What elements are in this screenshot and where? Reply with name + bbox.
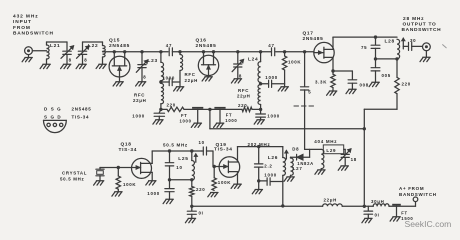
- resistor 100K (Q18 gate): [117, 168, 119, 177]
- node rail-L24: [259, 50, 262, 53]
- capacitor 8 (Q15 tank trimmer): [141, 52, 143, 64]
- ground output connector: [425, 51, 427, 57]
- resistor 220 (Q16 bias): [242, 107, 252, 111]
- node L25 bottom: [190, 178, 193, 181]
- transistor Q15 2N5485: [109, 56, 130, 77]
- svg-text:8: 8: [69, 58, 72, 63]
- svg-text:1000: 1000: [225, 118, 237, 123]
- svg-text:SeekIC.com: SeekIC.com: [405, 219, 452, 229]
- inductor 30uH: [373, 204, 389, 207]
- svg-text:10: 10: [176, 165, 182, 170]
- capacitor 5 (neutralizing): [304, 52, 306, 86]
- svg-text:2N5485: 2N5485: [196, 43, 217, 49]
- wire diode to 404 tank: [309, 149, 311, 157]
- svg-text:22μH: 22μH: [185, 78, 199, 83]
- capacitor 8 (L22 trimmer): [83, 41, 103, 43]
- ground .008: [346, 89, 356, 93]
- ground Q16 source: [202, 77, 212, 81]
- svg-text:Q16: Q16: [196, 38, 207, 44]
- svg-text:30μH: 30μH: [371, 199, 385, 204]
- svg-text:8: 8: [84, 58, 87, 63]
- ground 100K Q19: [208, 193, 218, 197]
- svg-text:220: 220: [167, 103, 176, 108]
- ground FT 1500: [390, 217, 400, 221]
- ground Q19 source: [231, 184, 241, 188]
- svg-text:L23: L23: [148, 58, 158, 64]
- svg-text:47: 47: [166, 43, 172, 48]
- svg-text:47: 47: [268, 43, 274, 48]
- inductor L21: [47, 41, 68, 43]
- arrow L26 slug: [285, 151, 287, 159]
- svg-text:D S G: D S G: [44, 107, 62, 112]
- inductor L26: [282, 147, 284, 158]
- svg-text:1000: 1000: [267, 113, 280, 118]
- ground L22: [96, 64, 106, 68]
- node rail-neutralizing: [303, 50, 306, 53]
- svg-text:008: 008: [360, 82, 369, 87]
- inductor L28: [397, 39, 400, 59]
- svg-text:2N5485: 2N5485: [303, 36, 324, 42]
- wire input to L21 tank: [32, 50, 46, 52]
- svg-text:5: 5: [308, 89, 311, 94]
- svg-text:1000: 1000: [265, 75, 278, 80]
- wire rail Q16 net: [172, 51, 271, 53]
- inductor RFC 22uH (Q15 bias choke): [160, 81, 162, 84]
- capacitor 1000 (Q15 bias bypass): [159, 109, 161, 112]
- svg-text:L27: L27: [293, 166, 303, 171]
- svg-text:432 MHz: 432 MHz: [13, 14, 39, 20]
- svg-text:22μH: 22μH: [237, 94, 251, 99]
- svg-text:FT: FT: [181, 113, 188, 118]
- capacitor .01 #1: [191, 206, 193, 210]
- capacitor 8 (Q16 tank trimmer): [237, 52, 239, 64]
- package outline TIS-34: [44, 119, 67, 121]
- transistor Q19 TIS-34: [219, 157, 240, 178]
- wire Q19 source to ground: [237, 172, 239, 184]
- svg-text:220: 220: [238, 103, 247, 108]
- node 75-.005 junction: [374, 57, 377, 60]
- wire dashes shield: [294, 105, 316, 107]
- node gate-100K: [117, 166, 120, 169]
- svg-text:1000: 1000: [180, 119, 192, 124]
- node bias2: [259, 108, 262, 111]
- svg-text:CRYSTAL: CRYSTAL: [62, 171, 87, 176]
- wire bias feed line: [184, 108, 210, 110]
- svg-text:FT: FT: [401, 210, 408, 215]
- node output-connector: [423, 43, 431, 51]
- svg-text:BANDSWITCH: BANDSWITCH: [402, 27, 442, 33]
- capacitor 1000 (Q18 chain): [169, 180, 171, 188]
- node rail-RFC1: [178, 50, 181, 53]
- svg-text:L22: L22: [88, 43, 98, 49]
- svg-text:L21: L21: [50, 43, 60, 49]
- inductor L29: [321, 149, 324, 168]
- capacitor 75: [375, 37, 377, 45]
- svg-text:TIS-34: TIS-34: [214, 146, 233, 152]
- inductor L27 link: [291, 158, 294, 175]
- wire junction to L28 bottom: [376, 58, 398, 60]
- svg-text:220: 220: [196, 187, 205, 192]
- node rail-varcap8: [140, 50, 143, 53]
- wire to Q19 gate: [212, 151, 214, 167]
- wire Q18 drain to 50.5 rail: [151, 151, 153, 163]
- inductor RFC 22uH (Q16 gate choke): [179, 52, 181, 55]
- ground Q18 source: [146, 181, 156, 185]
- node L26 feed on B+ rail: [281, 204, 284, 207]
- ground 100K Q18: [112, 192, 122, 196]
- svg-text:L29: L29: [326, 148, 336, 153]
- feedthrough capacitor FT 1000 #2: [210, 108, 242, 110]
- svg-text:RFC: RFC: [185, 72, 196, 77]
- wire 404 tank top lead: [305, 148, 322, 150]
- svg-text:8: 8: [143, 75, 146, 80]
- node 10-1000 junction: [168, 178, 171, 181]
- ground L27: [284, 177, 294, 181]
- svg-text:RFC: RFC: [238, 88, 249, 93]
- resistor 220 (osc chain): [191, 180, 193, 187]
- svg-text:L26: L26: [268, 155, 278, 161]
- svg-text:1000: 1000: [147, 191, 160, 196]
- svg-text:S G D: S G D: [44, 115, 62, 120]
- wire Q17 drain to output rail: [332, 37, 334, 49]
- ground 1000 Q18 chain: [163, 199, 173, 203]
- transistor Q16 2N5485: [198, 55, 218, 75]
- svg-text:1000: 1000: [264, 173, 277, 178]
- wire junction to L25 bottom: [170, 179, 192, 181]
- feedthrough capacitor FT 1000 #1: [192, 107, 203, 109]
- capacitor 18 (404 trimmer): [344, 148, 346, 150]
- ground .005: [369, 82, 379, 86]
- wire rail to Q17 gate: [276, 51, 314, 53]
- resistor 3.3K (Q17 source): [332, 71, 334, 74]
- inductor 22uH: [323, 204, 343, 206]
- transistor Q17 2N5485: [314, 42, 334, 62]
- inductor L25: [191, 151, 193, 161]
- svg-text:OUTPUT TO: OUTPUT TO: [403, 22, 437, 28]
- svg-text:22μH: 22μH: [133, 98, 147, 103]
- svg-text:18: 18: [351, 157, 357, 162]
- svg-text:TIS-34: TIS-34: [72, 115, 90, 120]
- wire Q19 drain to 202 rail: [237, 147, 239, 162]
- node output-tank top: [374, 35, 377, 38]
- node Q16 legs: [202, 50, 205, 53]
- node rail-2.2: [257, 145, 260, 148]
- svg-text:Q18: Q18: [121, 141, 132, 147]
- node rail-varcap8b: [236, 50, 239, 53]
- ground FT1: [191, 123, 201, 127]
- ground Q16 tank trimmer: [231, 79, 241, 83]
- resistor 100K (Q19 gate): [213, 167, 215, 178]
- svg-text:1N82A: 1N82A: [297, 161, 314, 166]
- ground bias1 bypass: [153, 120, 163, 124]
- svg-text:BANDSWITCH: BANDSWITCH: [13, 30, 54, 36]
- svg-text:Q15: Q15: [109, 38, 120, 44]
- ground 2.2 chain: [258, 181, 260, 189]
- capacitor 1000 (Q16 bias bypass): [260, 109, 262, 113]
- svg-text:2.2: 2.2: [264, 163, 272, 168]
- capacitor 10 (Q18-Q19 coupling): [202, 150, 204, 152]
- node bias1: [159, 108, 162, 111]
- inductor L23: [160, 52, 162, 63]
- resistor 100K (Q17 gate): [284, 52, 286, 56]
- svg-text:L24: L24: [248, 57, 258, 63]
- ground L22 trimmer: [76, 64, 86, 68]
- node rail-10shunt: [168, 149, 171, 152]
- svg-text:2N5485: 2N5485: [109, 43, 130, 49]
- svg-text:404 MHz: 404 MHz: [314, 139, 337, 144]
- arrow L25 slug: [195, 154, 197, 162]
- svg-text:RFC: RFC: [134, 92, 145, 97]
- diode D8 1N82A: [291, 156, 297, 158]
- svg-text:INPUT: INPUT: [13, 19, 32, 25]
- svg-text:100K: 100K: [218, 180, 231, 185]
- capacitor 1000 (series, L24 to 100K): [261, 83, 269, 85]
- svg-text:2N5485: 2N5485: [72, 107, 92, 112]
- svg-text:50.5 MHz: 50.5 MHz: [163, 142, 188, 147]
- svg-text:50.5 MHz: 50.5 MHz: [60, 176, 84, 181]
- ground Q15 tank trimmer: [136, 82, 146, 86]
- resistor 220 (Q15 bias): [161, 108, 167, 110]
- node gate-100K Q19: [213, 165, 216, 168]
- svg-text:L28: L28: [385, 39, 395, 45]
- node .01 #2: [363, 205, 366, 208]
- svg-text:100K: 100K: [288, 60, 301, 65]
- node A+ terminal: [415, 202, 417, 207]
- svg-text:BANDSWITCH: BANDSWITCH: [399, 192, 437, 197]
- capacitor 10 (shunt): [169, 151, 171, 162]
- svg-text:30: 30: [410, 38, 416, 43]
- wire crystal to Q18 gate: [100, 167, 132, 169]
- node Q15 legs: [113, 50, 116, 53]
- capacitor 8 (L21 trimmer): [66, 42, 68, 51]
- ground bias2 bypass: [254, 120, 264, 124]
- crystal Y1 50.5MHz: [99, 168, 101, 170]
- wire B+ rail: [192, 205, 323, 207]
- svg-text:3.3K: 3.3K: [315, 79, 327, 84]
- svg-text:Q17: Q17: [303, 31, 314, 37]
- svg-text:1000: 1000: [163, 75, 176, 80]
- svg-text:8: 8: [239, 73, 242, 78]
- inductor L22: [102, 42, 104, 46]
- capacitor .008 (Q17 source bypass): [333, 70, 352, 72]
- capacitor 2.2: [258, 147, 260, 164]
- svg-text:0I: 0I: [375, 212, 380, 217]
- node supply branch: [208, 108, 211, 111]
- svg-text:FT: FT: [226, 113, 233, 118]
- ground L21 trimmer: [61, 64, 71, 68]
- wire distribution line: [210, 128, 364, 130]
- svg-text:D8: D8: [292, 147, 299, 152]
- wire Q18 source to ground: [151, 172, 153, 180]
- svg-text:28 MHz: 28 MHz: [403, 16, 424, 22]
- inductor L24: [258, 62, 261, 83]
- svg-text:TIS-34: TIS-34: [119, 147, 138, 153]
- svg-text:75: 75: [361, 45, 367, 50]
- capacitor 47 (Q15-Q16 coupling): [168, 48, 170, 56]
- wire output return to B+ line: [396, 94, 398, 110]
- svg-text:005: 005: [382, 73, 391, 78]
- ground Q15 source: [113, 82, 123, 86]
- ground 18 trimmer: [338, 166, 348, 170]
- transistor Q18 TIS-34: [132, 158, 152, 178]
- ground crystal: [94, 181, 104, 185]
- node distribution-junction: [363, 127, 366, 130]
- box label L29: [323, 145, 343, 154]
- ground L21: [40, 64, 50, 68]
- inductor RFC 22uH (Q16 bias choke): [260, 105, 262, 110]
- svg-text:A+ FROM: A+ FROM: [399, 186, 424, 191]
- svg-text:L25: L25: [178, 156, 188, 162]
- capacitor .005: [375, 59, 377, 67]
- node B+ rail left end: [190, 205, 193, 208]
- node 2.2 bottom: [257, 179, 260, 182]
- ground under input connector: [28, 55, 30, 58]
- resistor 220 (output return): [396, 59, 398, 78]
- wire rail Q15 drain net: [103, 51, 115, 53]
- arrow L28 slug: [402, 38, 404, 49]
- ground RFC1: [174, 87, 184, 91]
- node rail-L23: [159, 50, 162, 53]
- capacitor 30 (output coupling): [403, 45, 407, 47]
- svg-text:1000: 1000: [132, 113, 145, 118]
- ground 3.3K: [327, 91, 337, 95]
- svg-text:0I: 0I: [199, 211, 204, 216]
- svg-text:22μH: 22μH: [324, 198, 338, 203]
- ground .01 #2: [362, 218, 372, 222]
- svg-text:10: 10: [199, 140, 205, 145]
- ground 100K: [278, 87, 288, 91]
- node input-connector J1 432MHz: [25, 47, 33, 55]
- ground FT2: [214, 123, 224, 127]
- ground L29: [315, 170, 325, 174]
- capacitor .01 #2: [367, 206, 369, 210]
- capacitor 47 (Q16-Q17 coupling): [271, 48, 273, 56]
- wire artifact tick: [443, 45, 447, 48]
- ground .01 #1: [185, 218, 195, 222]
- node rail-100K: [283, 50, 286, 53]
- wire branch down to distribution line: [209, 109, 211, 128]
- svg-text:FROM: FROM: [13, 25, 31, 31]
- wire Q17 source node: [332, 57, 334, 71]
- node L23-RFC junction: [159, 80, 162, 83]
- svg-text:100K: 100K: [123, 182, 136, 187]
- node rail-L25: [190, 149, 193, 152]
- capacitor 1000 (series to L26): [259, 180, 267, 182]
- svg-text:220: 220: [402, 81, 411, 86]
- node L24-RFC junction: [259, 82, 262, 85]
- capacitor 1000 (series, L23 to RFC1): [161, 81, 169, 83]
- feedthrough capacitor FT 1500: [392, 204, 401, 206]
